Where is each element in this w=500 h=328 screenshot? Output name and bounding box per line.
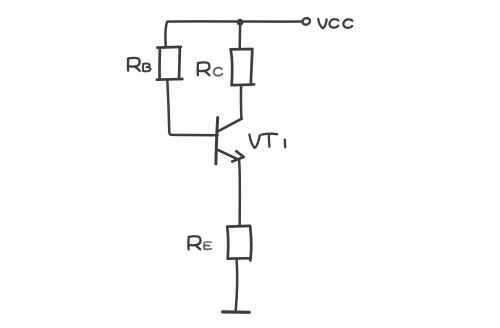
- wire emitter down to RE: [238, 161, 241, 226]
- wire RC tap down to RC top: [238, 25, 241, 49]
- resistor RC body: [231, 49, 255, 85]
- transistor VT1 emitter stroke: [218, 150, 237, 159]
- label RB: [128, 58, 140, 71]
- transistor VT1 base bar: [216, 118, 218, 164]
- resistor RB body: [157, 47, 182, 80]
- label VT1: [249, 134, 285, 148]
- ground: [223, 310, 250, 314]
- transistor VT1 collector stroke: [218, 119, 242, 132]
- wire RB bottom to transistor base: [167, 80, 217, 135]
- resistor RE body: [227, 226, 251, 261]
- wire RE bottom to ground: [236, 259, 237, 310]
- transistor VT1 emitter arrowhead: [232, 151, 244, 161]
- label RC: [198, 62, 210, 75]
- wire VCC rail (top horizontal with left corner down to RB): [165, 21, 302, 46]
- terminal VCC (open circle): [302, 17, 311, 25]
- label RE: [188, 236, 200, 249]
- label VCC: [318, 19, 352, 28]
- node junction at RC tap: [237, 19, 244, 26]
- wire RC bottom to collector: [240, 86, 243, 119]
